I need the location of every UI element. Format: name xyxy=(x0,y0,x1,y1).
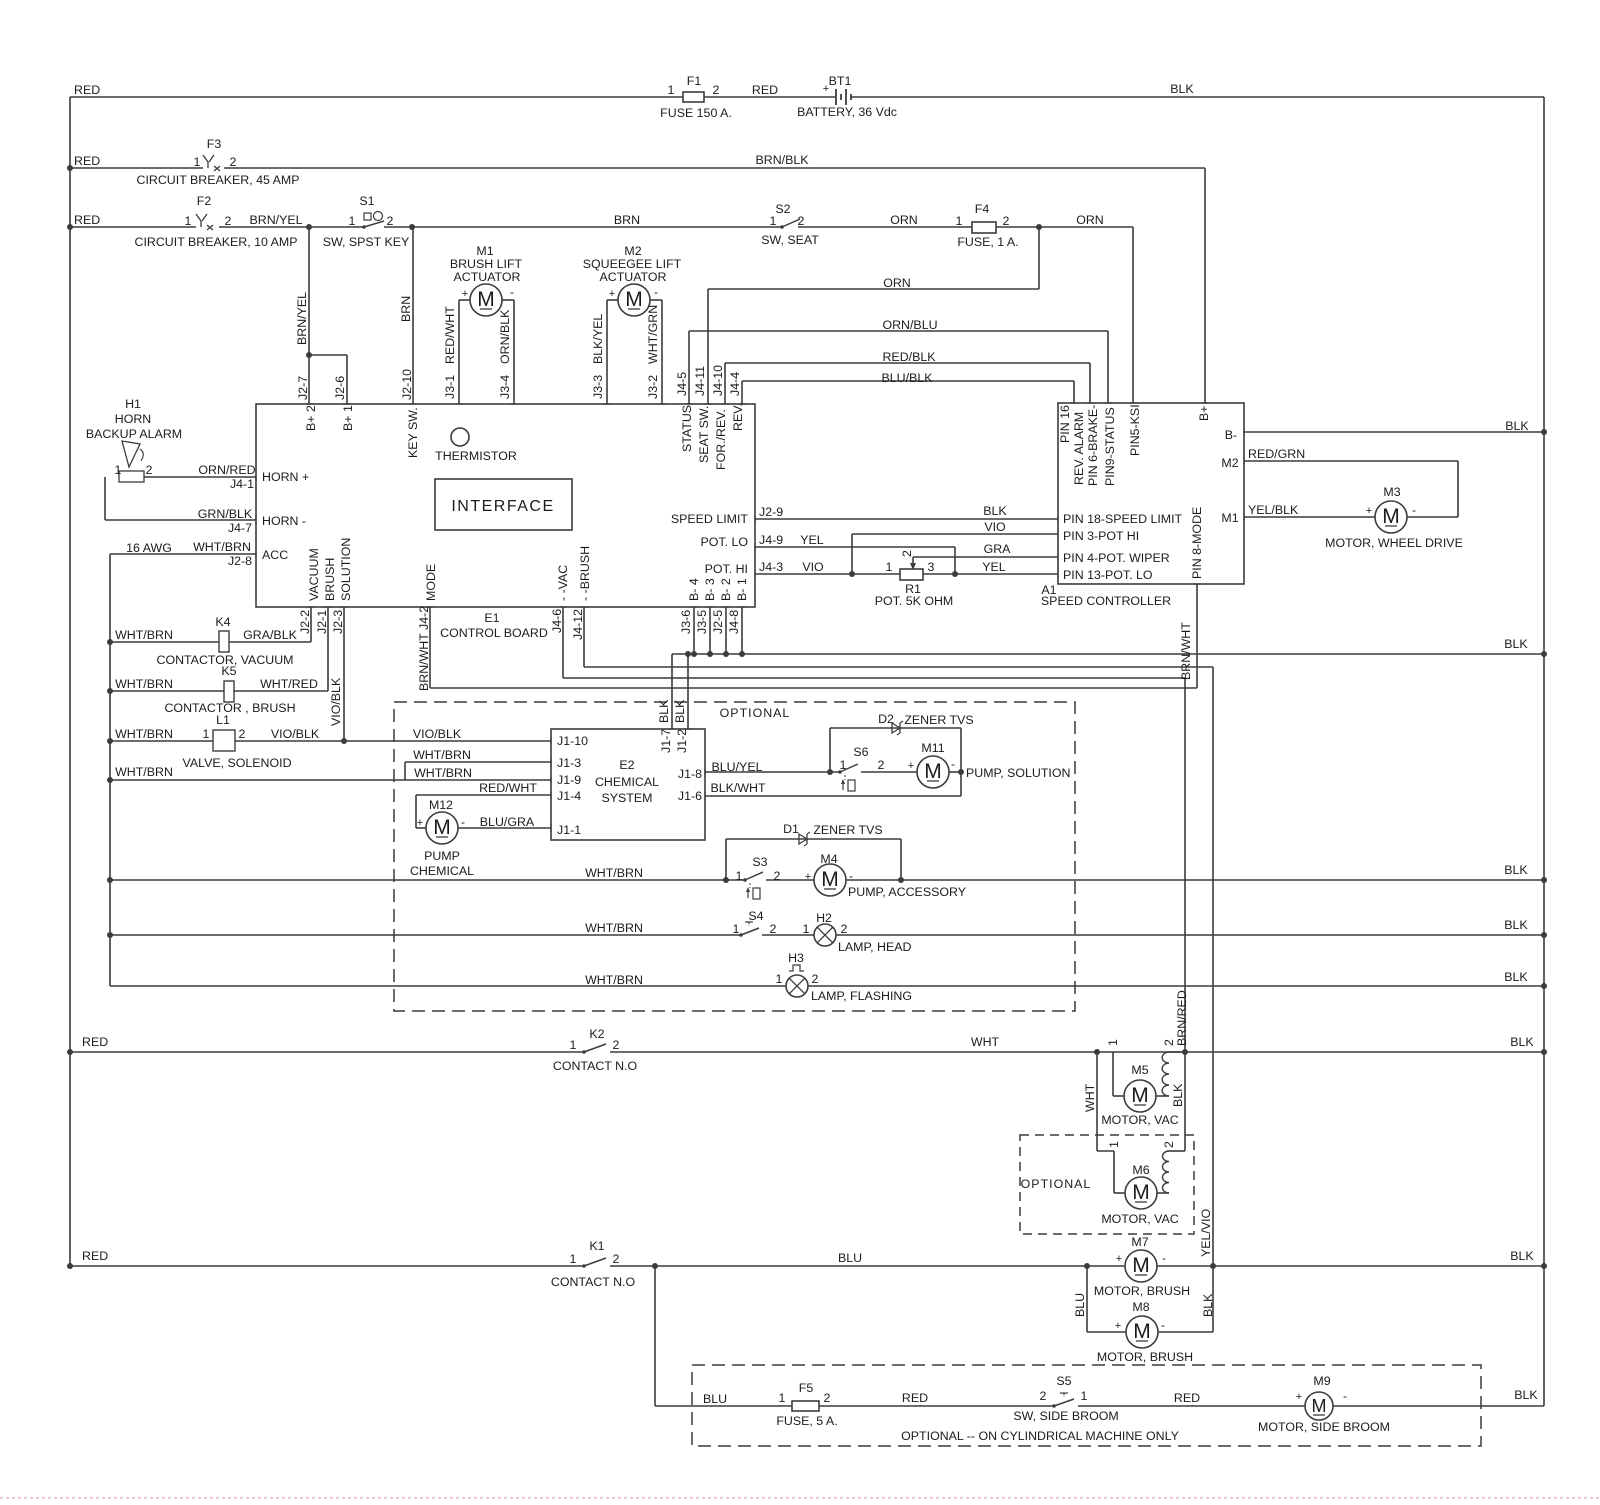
svg-text:J1-10: J1-10 xyxy=(557,734,588,748)
svg-text:CONTACT N.O: CONTACT N.O xyxy=(551,1275,636,1289)
svg-text:B- 3: B- 3 xyxy=(703,578,717,601)
svg-text:BRN/RED: BRN/RED xyxy=(1175,990,1189,1046)
svg-text:-: - xyxy=(951,757,955,771)
svg-text:1: 1 xyxy=(1106,1039,1120,1046)
svg-text:J1-3: J1-3 xyxy=(557,756,581,770)
svg-text:RED: RED xyxy=(82,1035,108,1049)
svg-text:OPTIONAL: OPTIONAL xyxy=(720,706,791,720)
svg-text:+: + xyxy=(908,760,914,772)
svg-text:CHEMICAL: CHEMICAL xyxy=(410,864,474,878)
svg-text:POT. HI: POT. HI xyxy=(705,562,748,576)
svg-text:+: + xyxy=(462,288,468,300)
svg-text:BLK: BLK xyxy=(1171,1083,1185,1107)
svg-text:J2-6: J2-6 xyxy=(333,376,347,400)
svg-text:RED: RED xyxy=(74,83,100,97)
svg-text:WHT/BRN: WHT/BRN xyxy=(413,748,471,762)
svg-text:-: - xyxy=(461,815,465,829)
svg-text:PIN 3-POT HI: PIN 3-POT HI xyxy=(1063,529,1139,543)
svg-text:BLU/YEL: BLU/YEL xyxy=(712,760,763,774)
svg-text:J3-3: J3-3 xyxy=(591,375,605,399)
svg-text:K4: K4 xyxy=(215,615,230,629)
svg-text:VALVE, SOLENOID: VALVE, SOLENOID xyxy=(182,756,291,770)
svg-text:2: 2 xyxy=(841,922,848,936)
svg-text:STATUS: STATUS xyxy=(680,405,694,452)
svg-text:ORN: ORN xyxy=(883,276,911,290)
svg-text:MOTOR, VAC: MOTOR, VAC xyxy=(1101,1113,1178,1127)
svg-text:J2-8: J2-8 xyxy=(228,554,252,568)
svg-text:J1-8: J1-8 xyxy=(678,767,702,781)
svg-text:MOTOR, BRUSH: MOTOR, BRUSH xyxy=(1097,1350,1193,1364)
svg-text:1: 1 xyxy=(840,758,847,772)
svg-text:B+: B+ xyxy=(1197,405,1211,421)
svg-text:1: 1 xyxy=(1081,1389,1088,1403)
svg-text:BRUSH: BRUSH xyxy=(323,558,337,601)
svg-text:M2: M2 xyxy=(1221,456,1238,470)
svg-text:ZENER TVS: ZENER TVS xyxy=(904,713,973,727)
svg-text:E1: E1 xyxy=(484,611,499,625)
svg-text:WHT: WHT xyxy=(1083,1083,1097,1112)
svg-text:2: 2 xyxy=(230,155,237,169)
svg-text:REV. ALARM: REV. ALARM xyxy=(1072,412,1086,485)
svg-text:J1-2: J1-2 xyxy=(675,729,689,753)
svg-text:FUSE 150 A.: FUSE 150 A. xyxy=(660,106,732,120)
svg-text:BLK/YEL: BLK/YEL xyxy=(591,314,605,364)
svg-text:GRA: GRA xyxy=(984,542,1012,556)
svg-text:ACC: ACC xyxy=(262,548,288,562)
svg-text:BRN/YEL: BRN/YEL xyxy=(249,213,302,227)
svg-text:BLK: BLK xyxy=(1514,1388,1538,1402)
svg-text:2: 2 xyxy=(146,463,153,477)
svg-text:-: - xyxy=(849,869,853,883)
svg-text:J4-9: J4-9 xyxy=(759,533,783,547)
svg-text:PIN 13-POT. LO: PIN 13-POT. LO xyxy=(1063,568,1153,582)
svg-text:WHT: WHT xyxy=(971,1035,1000,1049)
svg-text:M5: M5 xyxy=(1131,1063,1148,1077)
svg-text:D1: D1 xyxy=(783,822,799,836)
svg-text:RED/WHT: RED/WHT xyxy=(443,306,457,364)
svg-text:VIO/BLK: VIO/BLK xyxy=(413,727,462,741)
svg-text:YEL: YEL xyxy=(800,533,824,547)
svg-text:J4-7: J4-7 xyxy=(228,521,252,535)
svg-text:RED/BLK: RED/BLK xyxy=(882,350,936,364)
svg-text:PIN 4-POT. WIPER: PIN 4-POT. WIPER xyxy=(1063,551,1170,565)
svg-text:2: 2 xyxy=(613,1038,620,1052)
svg-text:HORN: HORN xyxy=(115,412,151,426)
svg-text:J4-5: J4-5 xyxy=(675,372,689,396)
svg-text:B- 2: B- 2 xyxy=(719,578,733,601)
svg-text:BLK: BLK xyxy=(1510,1249,1534,1263)
svg-text:J4-11: J4-11 xyxy=(693,366,707,396)
svg-text:KEY SW.: KEY SW. xyxy=(406,407,420,458)
svg-text:+: + xyxy=(417,817,423,829)
svg-text:SW, SEAT: SW, SEAT xyxy=(761,233,819,247)
svg-text:SEAT SW.: SEAT SW. xyxy=(697,406,711,463)
svg-text:+: + xyxy=(609,288,615,300)
svg-text:J2-5: J2-5 xyxy=(711,610,725,634)
svg-text:J4-1: J4-1 xyxy=(230,477,254,491)
svg-text:J2-2: J2-2 xyxy=(298,610,312,634)
svg-text:J1-1: J1-1 xyxy=(557,823,581,837)
svg-text:ACTUATOR: ACTUATOR xyxy=(599,270,666,284)
svg-text:HORN +: HORN + xyxy=(262,470,309,484)
svg-text:+: + xyxy=(1115,1320,1121,1332)
svg-text:3: 3 xyxy=(928,560,935,574)
svg-text:ORN: ORN xyxy=(890,213,918,227)
svg-text:WHT/RED: WHT/RED xyxy=(260,677,318,691)
svg-text:GRN/BLK: GRN/BLK xyxy=(198,507,253,521)
svg-text:BRN: BRN xyxy=(614,213,640,227)
svg-text:1: 1 xyxy=(203,727,210,741)
svg-text:J1-4: J1-4 xyxy=(557,789,581,803)
svg-text:VIO: VIO xyxy=(802,560,824,574)
svg-text:M: M xyxy=(477,288,495,311)
svg-text:1: 1 xyxy=(185,214,192,228)
svg-text:J4-3: J4-3 xyxy=(759,560,783,574)
svg-text:SPEED LIMIT: SPEED LIMIT xyxy=(671,512,749,526)
svg-text:RED/GRN: RED/GRN xyxy=(1248,447,1305,461)
svg-text:BLK/WHT: BLK/WHT xyxy=(710,781,766,795)
svg-text:BATTERY, 36 Vdc: BATTERY, 36 Vdc xyxy=(797,105,897,119)
svg-text:BRN/YEL: BRN/YEL xyxy=(295,292,309,345)
svg-text:M: M xyxy=(1132,1181,1150,1204)
svg-text:RED: RED xyxy=(1174,1391,1200,1405)
svg-text:2: 2 xyxy=(878,758,885,772)
svg-text:K1: K1 xyxy=(589,1239,604,1253)
svg-text:2: 2 xyxy=(774,869,781,883)
svg-text:BLU/BLK: BLU/BLK xyxy=(882,371,934,385)
svg-text:2: 2 xyxy=(713,83,720,97)
svg-text:-: - xyxy=(1162,1251,1166,1265)
svg-text:THERMISTOR: THERMISTOR xyxy=(435,449,517,463)
svg-text:1: 1 xyxy=(886,560,893,574)
svg-text:+: + xyxy=(1296,1391,1302,1403)
svg-text:J2-1: J2-1 xyxy=(315,610,329,634)
svg-text:SW, SIDE BROOM: SW, SIDE BROOM xyxy=(1013,1409,1118,1423)
svg-text:H1: H1 xyxy=(125,397,141,411)
svg-text:FUSE, 1 A.: FUSE, 1 A. xyxy=(957,235,1018,249)
svg-text:-: - xyxy=(1343,1389,1347,1403)
svg-text:WHT/BRN: WHT/BRN xyxy=(585,973,643,987)
svg-text:RED/WHT: RED/WHT xyxy=(479,781,537,795)
svg-text:PIN 8-MODE: PIN 8-MODE xyxy=(1190,507,1204,579)
svg-text:ORN: ORN xyxy=(1076,213,1104,227)
svg-text:2: 2 xyxy=(225,214,232,228)
svg-text:BLK: BLK xyxy=(983,504,1007,518)
svg-text:CONTROL BOARD: CONTROL BOARD xyxy=(440,626,548,640)
svg-text:BLU: BLU xyxy=(703,1392,727,1406)
svg-text:J3-2: J3-2 xyxy=(646,375,660,399)
svg-text:WHT/BRN: WHT/BRN xyxy=(115,727,173,741)
svg-text:1: 1 xyxy=(115,463,122,477)
svg-text:WHT/BRN: WHT/BRN xyxy=(414,766,472,780)
svg-text:BLU: BLU xyxy=(838,1251,862,1265)
svg-text:ORN/BLK: ORN/BLK xyxy=(498,309,512,364)
svg-text:M: M xyxy=(1132,1254,1150,1277)
svg-text:ZENER TVS: ZENER TVS xyxy=(813,823,882,837)
svg-text:PIN9-STATUS: PIN9-STATUS xyxy=(1103,407,1117,486)
svg-text:CONTACTOR , BRUSH: CONTACTOR , BRUSH xyxy=(164,701,295,715)
svg-text:POT. LO: POT. LO xyxy=(700,535,748,549)
svg-text:1: 1 xyxy=(668,83,675,97)
svg-text:M: M xyxy=(1382,505,1400,528)
svg-text:2: 2 xyxy=(824,1391,831,1405)
svg-text:S1: S1 xyxy=(359,194,374,208)
svg-text:2: 2 xyxy=(798,214,805,228)
svg-text:2: 2 xyxy=(613,1252,620,1266)
svg-text:LAMP, FLASHING: LAMP, FLASHING xyxy=(811,989,912,1003)
svg-text:+: + xyxy=(1116,1253,1122,1265)
svg-text:PIN 16: PIN 16 xyxy=(1058,405,1072,443)
svg-text:J2-7: J2-7 xyxy=(296,376,310,400)
svg-text:ORN/BLU: ORN/BLU xyxy=(882,318,937,332)
svg-text:M4: M4 xyxy=(820,852,837,866)
svg-text:PIN5-KSI: PIN5-KSI xyxy=(1128,404,1142,456)
svg-text:BRN: BRN xyxy=(399,296,413,322)
svg-text:M: M xyxy=(625,288,643,311)
svg-text:M: M xyxy=(433,816,451,839)
svg-text:RED: RED xyxy=(74,154,100,168)
svg-text:B-: B- xyxy=(1225,428,1237,442)
svg-text:WHT/GRN: WHT/GRN xyxy=(646,305,660,364)
svg-text:-: - xyxy=(510,285,514,299)
svg-text:B+ 1: B+ 1 xyxy=(341,405,355,431)
svg-text:VIO/BLK: VIO/BLK xyxy=(271,727,320,741)
svg-text:- -BRUSH: - -BRUSH xyxy=(578,546,592,601)
svg-text:1: 1 xyxy=(570,1038,577,1052)
svg-text:VIO/BLK: VIO/BLK xyxy=(329,677,343,726)
svg-text:H3: H3 xyxy=(788,951,804,965)
svg-text:J2-9: J2-9 xyxy=(759,505,783,519)
svg-text:BRUSH LIFT: BRUSH LIFT xyxy=(450,257,523,271)
svg-text:VIO: VIO xyxy=(984,520,1006,534)
svg-text:1: 1 xyxy=(779,1391,786,1405)
svg-text:POT. 5K OHM: POT. 5K OHM xyxy=(875,594,954,608)
svg-text:WHT/BRN: WHT/BRN xyxy=(193,540,251,554)
svg-text:YEL/BLK: YEL/BLK xyxy=(1248,503,1299,517)
svg-text:WHT/BRN: WHT/BRN xyxy=(115,677,173,691)
svg-text:RED: RED xyxy=(902,1391,928,1405)
svg-text:WHT/BRN: WHT/BRN xyxy=(115,628,173,642)
svg-text:J4-12: J4-12 xyxy=(571,609,585,640)
svg-text:E2: E2 xyxy=(619,758,634,772)
svg-text:GRA/BLK: GRA/BLK xyxy=(243,628,297,642)
svg-text:PIN 6-BRAKE-: PIN 6-BRAKE- xyxy=(1086,405,1100,486)
svg-text:2: 2 xyxy=(900,550,914,557)
svg-text:BLK: BLK xyxy=(1510,1035,1534,1049)
svg-text:-: - xyxy=(1412,503,1416,517)
svg-text:F3: F3 xyxy=(207,137,222,151)
svg-text:WHT/BRN: WHT/BRN xyxy=(115,765,173,779)
svg-text:B+ 2: B+ 2 xyxy=(304,405,318,431)
svg-text:M: M xyxy=(1312,1396,1327,1416)
svg-text:BLU: BLU xyxy=(1073,1293,1087,1317)
svg-text:PIN 18-SPEED LIMIT: PIN 18-SPEED LIMIT xyxy=(1063,512,1183,526)
svg-text:2: 2 xyxy=(1162,1039,1176,1046)
svg-text:1: 1 xyxy=(1107,1141,1121,1148)
svg-text:BT1: BT1 xyxy=(829,74,852,88)
svg-text:J3-1: J3-1 xyxy=(443,375,457,399)
svg-text:YEL/VIO: YEL/VIO xyxy=(1199,1208,1213,1257)
svg-text:RED: RED xyxy=(752,83,778,97)
svg-text:M3: M3 xyxy=(1383,485,1400,499)
svg-text:J4-8: J4-8 xyxy=(727,610,741,634)
svg-text:S2: S2 xyxy=(775,202,790,216)
svg-text:2: 2 xyxy=(239,727,246,741)
svg-text:BLK: BLK xyxy=(673,699,687,723)
svg-text:BACKUP ALARM: BACKUP ALARM xyxy=(86,427,182,441)
svg-text:J3-6: J3-6 xyxy=(679,610,693,634)
svg-text:B- 4: B- 4 xyxy=(687,578,701,601)
svg-text:2: 2 xyxy=(1162,1141,1176,1148)
svg-text:CONTACT N.O: CONTACT N.O xyxy=(553,1059,638,1073)
svg-text:BRN/WHT: BRN/WHT xyxy=(1179,622,1193,680)
svg-text:BLK: BLK xyxy=(1505,419,1529,433)
svg-text:BLK: BLK xyxy=(1504,637,1528,651)
svg-text:H2: H2 xyxy=(816,911,832,925)
svg-text:MOTOR, SIDE BROOM: MOTOR, SIDE BROOM xyxy=(1258,1420,1390,1434)
svg-text:S5: S5 xyxy=(1056,1374,1071,1388)
svg-text:M2: M2 xyxy=(624,244,641,258)
svg-text:F2: F2 xyxy=(197,194,212,208)
svg-text:MODE: MODE xyxy=(424,564,438,601)
svg-text:J4-10: J4-10 xyxy=(711,365,725,396)
svg-text:CIRCUIT BREAKER, 45 AMP: CIRCUIT BREAKER, 45 AMP xyxy=(137,173,300,187)
svg-text:M6: M6 xyxy=(1132,1163,1149,1177)
svg-text:1: 1 xyxy=(956,214,963,228)
svg-text:BLK: BLK xyxy=(1504,863,1528,877)
svg-text:M12: M12 xyxy=(429,798,453,812)
svg-text:HORN -: HORN - xyxy=(262,514,306,528)
svg-text:1: 1 xyxy=(349,214,356,228)
svg-text:2: 2 xyxy=(1040,1389,1047,1403)
svg-text:1: 1 xyxy=(803,922,810,936)
svg-text:M: M xyxy=(1131,1084,1149,1107)
svg-text:M: M xyxy=(924,760,942,783)
svg-text:1: 1 xyxy=(194,155,201,169)
svg-text:J1-6: J1-6 xyxy=(678,789,702,803)
svg-text:K2: K2 xyxy=(589,1027,604,1041)
svg-text:F4: F4 xyxy=(975,202,990,216)
svg-text:SQUEEGEE LIFT: SQUEEGEE LIFT xyxy=(583,257,682,271)
svg-text:SYSTEM: SYSTEM xyxy=(602,791,653,805)
svg-text:J1-9: J1-9 xyxy=(557,773,581,787)
svg-text:J4-6: J4-6 xyxy=(550,609,564,633)
svg-text:BRN/BLK: BRN/BLK xyxy=(755,153,809,167)
svg-text:M1: M1 xyxy=(476,244,493,258)
svg-text:RED: RED xyxy=(74,213,100,227)
svg-text:INTERFACE: INTERFACE xyxy=(451,498,554,515)
svg-text:J2-10: J2-10 xyxy=(400,369,414,400)
svg-text:LAMP, HEAD: LAMP, HEAD xyxy=(838,940,912,954)
svg-text:BLK: BLK xyxy=(1504,970,1528,984)
svg-text:OPTIONAL -- ON CYLINDRICAL MAC: OPTIONAL -- ON CYLINDRICAL MACHINE ONLY xyxy=(901,1429,1179,1443)
svg-text:BLK: BLK xyxy=(657,699,671,723)
svg-text:WHT/BRN: WHT/BRN xyxy=(585,921,643,935)
svg-text:BRN/WHT J4-2: BRN/WHT J4-2 xyxy=(417,606,431,691)
svg-text:+: + xyxy=(823,83,829,95)
svg-text:WHT/BRN: WHT/BRN xyxy=(585,866,643,880)
svg-text:M11: M11 xyxy=(921,741,944,755)
svg-text:J2-3: J2-3 xyxy=(331,610,345,634)
svg-text:F5: F5 xyxy=(799,1381,814,1395)
svg-text:1: 1 xyxy=(570,1252,577,1266)
svg-text:MOTOR, VAC: MOTOR, VAC xyxy=(1101,1212,1178,1226)
svg-text:+: + xyxy=(805,871,811,883)
svg-text:J1-7: J1-7 xyxy=(659,729,673,753)
svg-text:2: 2 xyxy=(1003,214,1010,228)
svg-text:PUMP: PUMP xyxy=(424,849,460,863)
svg-text:CIRCUIT BREAKER, 10 AMP: CIRCUIT BREAKER, 10 AMP xyxy=(135,235,298,249)
svg-text:1: 1 xyxy=(736,869,743,883)
svg-text:J3-4: J3-4 xyxy=(498,375,512,399)
svg-text:2: 2 xyxy=(387,214,394,228)
svg-text:1: 1 xyxy=(770,214,777,228)
svg-text:RED: RED xyxy=(82,1249,108,1263)
svg-text:YEL: YEL xyxy=(982,560,1006,574)
svg-text:VACUUM: VACUUM xyxy=(307,548,321,601)
svg-text:REV.: REV. xyxy=(731,403,745,431)
svg-text:PUMP, SOLUTION: PUMP, SOLUTION xyxy=(966,766,1070,780)
svg-text:D2: D2 xyxy=(878,712,894,726)
svg-text:K5: K5 xyxy=(221,664,236,678)
svg-text:M: M xyxy=(1133,1320,1151,1343)
svg-text:B- 1: B- 1 xyxy=(735,578,749,601)
svg-text:2: 2 xyxy=(812,972,819,986)
svg-text:-: - xyxy=(654,285,658,299)
svg-text:FUSE, 5 A.: FUSE, 5 A. xyxy=(776,1414,837,1428)
svg-text:FOR./REV.: FOR./REV. xyxy=(714,409,728,470)
svg-text:ORN/RED: ORN/RED xyxy=(198,463,255,477)
svg-text:ACTUATOR: ACTUATOR xyxy=(453,270,520,284)
svg-text:SW, SPST KEY: SW, SPST KEY xyxy=(323,235,410,249)
svg-text:SOLUTION: SOLUTION xyxy=(339,538,353,601)
svg-text:BLK: BLK xyxy=(1201,1293,1215,1317)
svg-text:MOTOR, BRUSH: MOTOR, BRUSH xyxy=(1094,1284,1190,1298)
svg-text:1: 1 xyxy=(733,922,740,936)
svg-text:J3-5: J3-5 xyxy=(695,610,709,634)
svg-text:+: + xyxy=(1366,505,1372,517)
svg-text:-: - xyxy=(1161,1318,1165,1332)
svg-text:2: 2 xyxy=(770,922,777,936)
svg-text:M8: M8 xyxy=(1132,1300,1149,1314)
svg-text:M9: M9 xyxy=(1313,1374,1330,1388)
svg-text:16 AWG: 16 AWG xyxy=(126,541,172,555)
svg-text:M: M xyxy=(821,868,839,891)
svg-text:BLK: BLK xyxy=(1504,918,1528,932)
svg-text:M7: M7 xyxy=(1131,1235,1148,1249)
svg-text:1: 1 xyxy=(776,972,783,986)
svg-text:S3: S3 xyxy=(752,855,767,869)
svg-text:BLU/GRA: BLU/GRA xyxy=(480,815,535,829)
svg-text:PUMP, ACCESSORY: PUMP, ACCESSORY xyxy=(848,885,966,899)
svg-text:OPTIONAL: OPTIONAL xyxy=(1021,1177,1092,1191)
svg-text:MOTOR, WHEEL DRIVE: MOTOR, WHEEL DRIVE xyxy=(1325,536,1463,550)
svg-text:SPEED CONTROLLER: SPEED CONTROLLER xyxy=(1041,594,1171,608)
svg-text:- -VAC: - -VAC xyxy=(556,565,570,601)
svg-text:S4: S4 xyxy=(748,909,763,923)
svg-text:BLK: BLK xyxy=(1170,82,1194,96)
svg-text:CHEMICAL: CHEMICAL xyxy=(595,775,659,789)
svg-text:S6: S6 xyxy=(853,745,868,759)
svg-text:F1: F1 xyxy=(687,74,702,88)
svg-text:J4-4: J4-4 xyxy=(728,372,742,396)
svg-text:L1: L1 xyxy=(216,713,230,727)
svg-text:M1: M1 xyxy=(1221,511,1238,525)
